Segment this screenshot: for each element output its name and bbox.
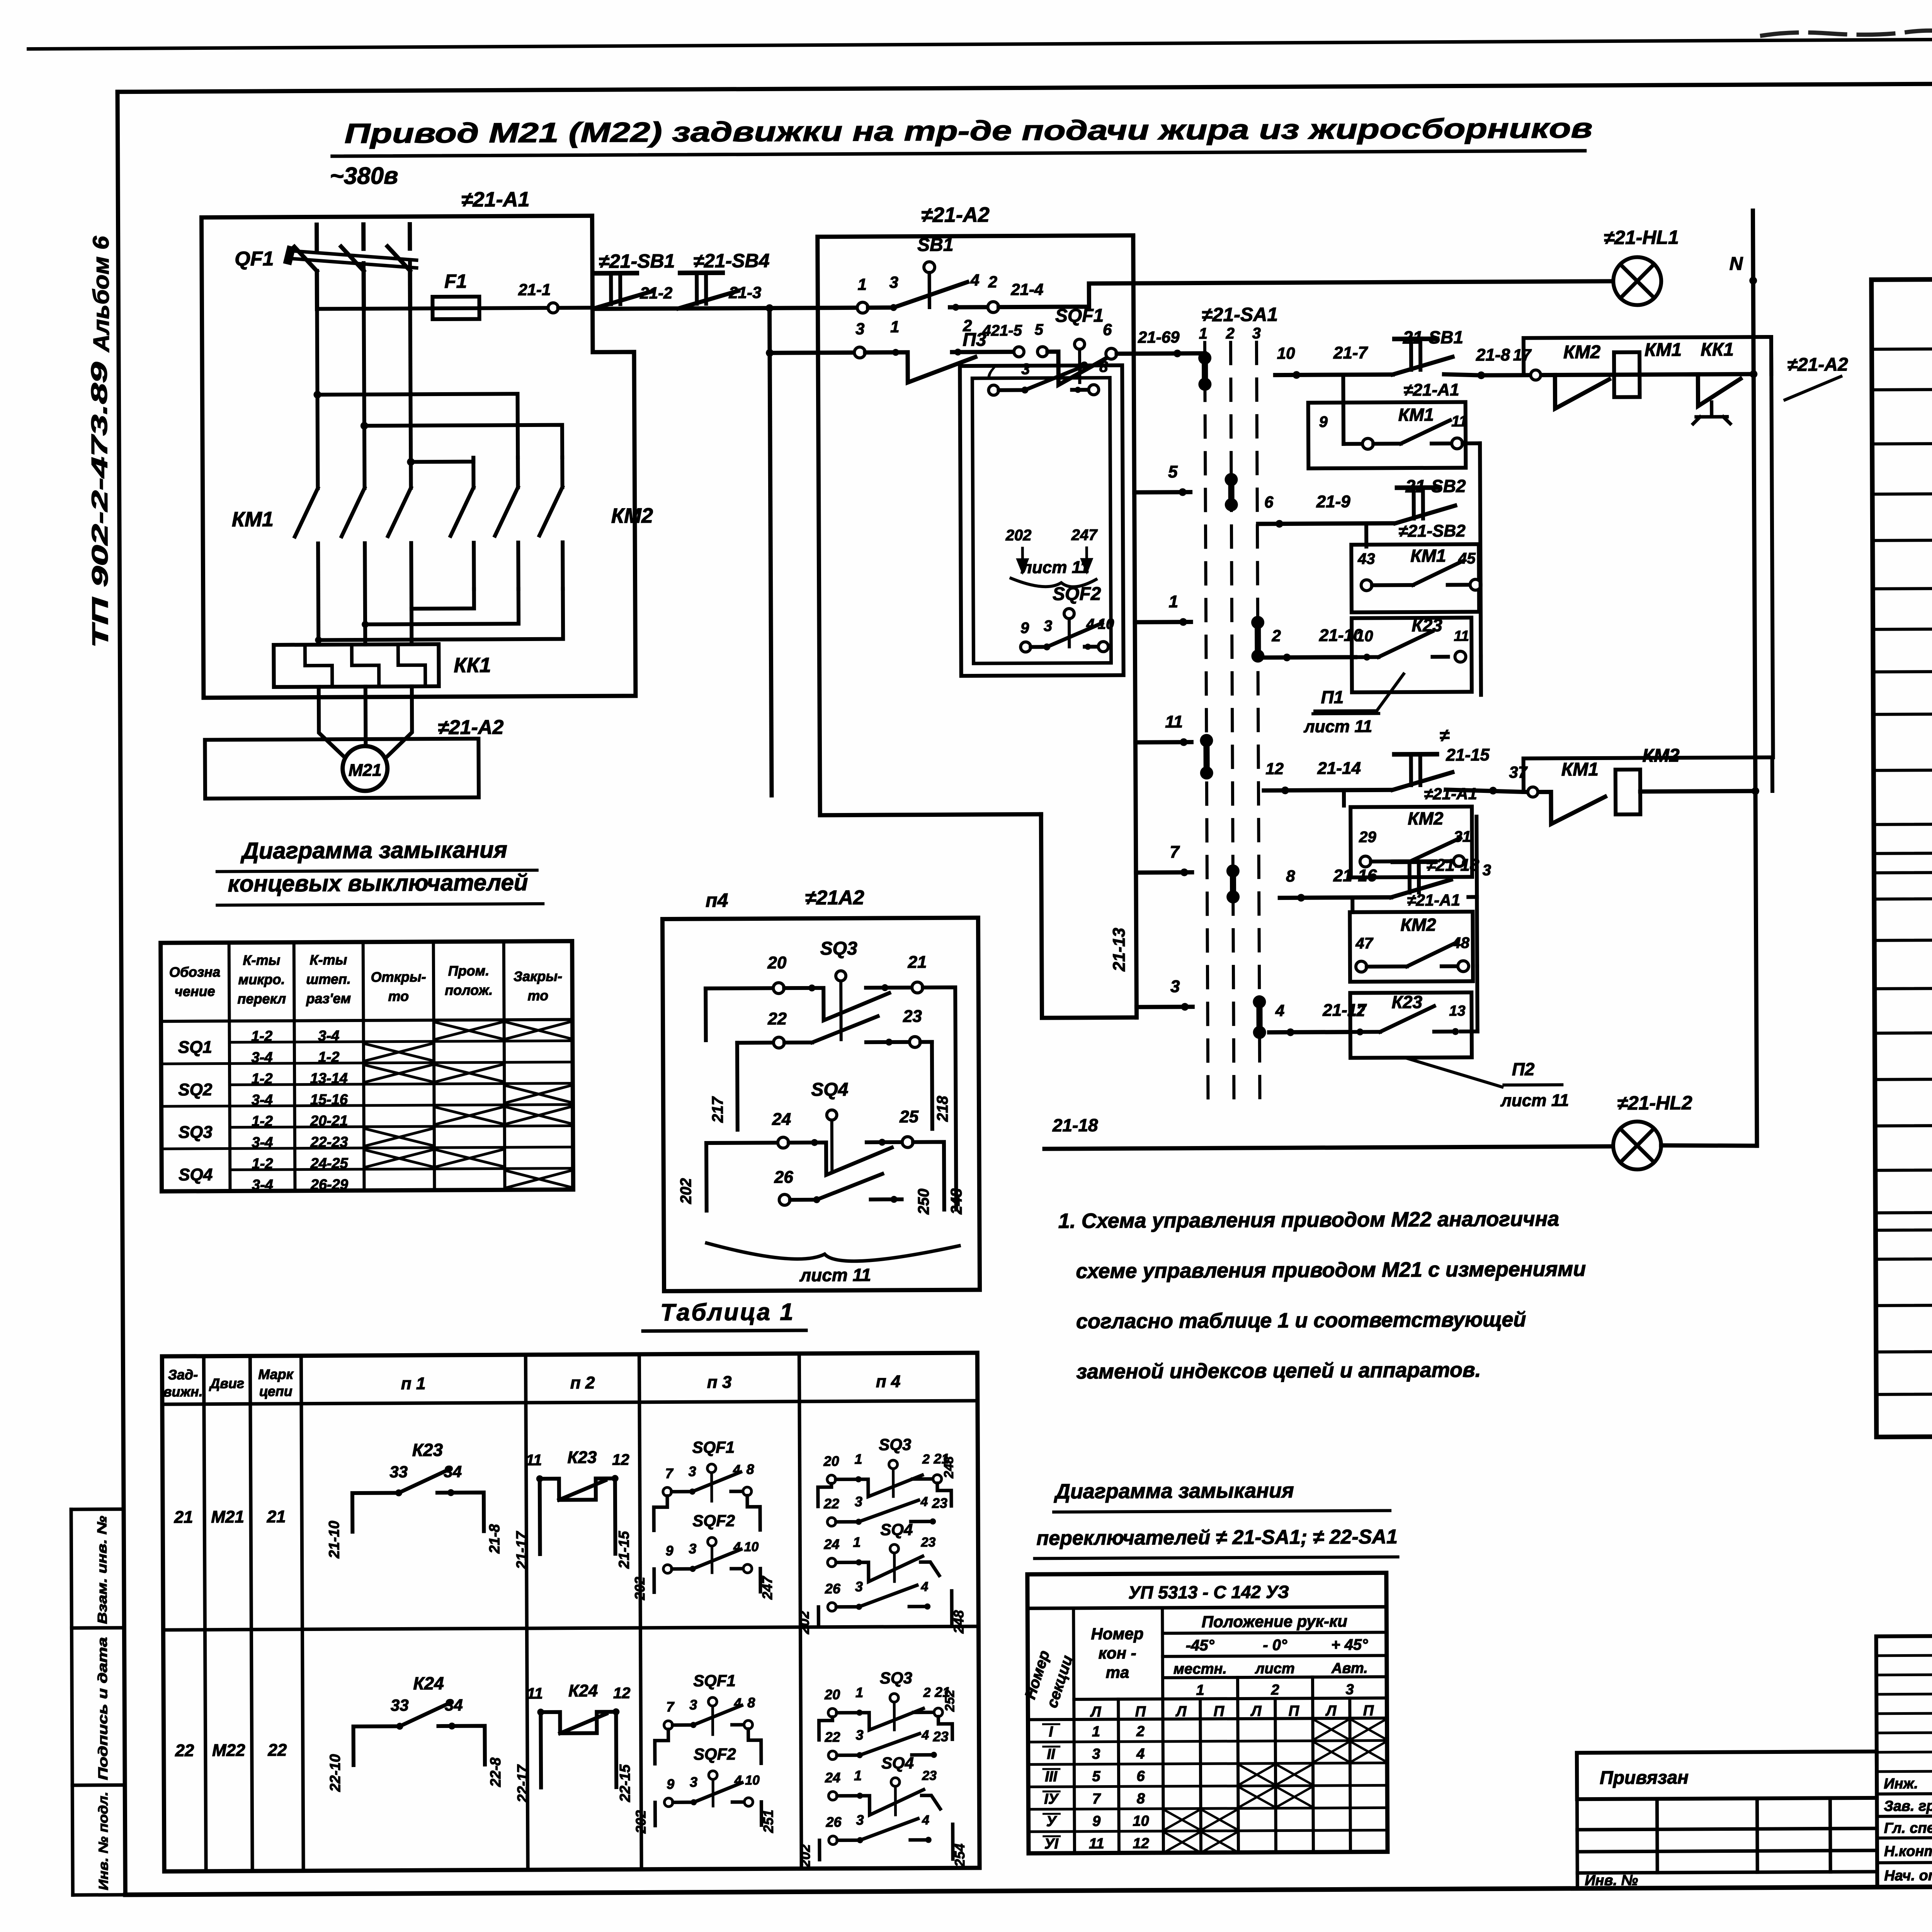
UP X mark r2 c5 xyxy=(1240,1765,1274,1784)
P3 arrow 202 xyxy=(1018,548,1027,571)
svg-text:≠: ≠ xyxy=(1440,725,1450,745)
svg-text:2: 2 xyxy=(1270,1682,1279,1698)
wire KM2 coil to rail xyxy=(1640,791,1755,791)
KM2 47-48 arm xyxy=(1407,942,1457,967)
svg-text:218: 218 xyxy=(934,1095,951,1122)
terminal 26 xyxy=(779,1194,790,1205)
tie wire C to KM2 left xyxy=(411,458,473,462)
KM1 9-11 contact arm xyxy=(1401,420,1450,444)
svg-text:23: 23 xyxy=(922,1768,937,1783)
wire row 21-10 xyxy=(1265,657,1355,658)
parts table row line xyxy=(1874,895,1932,899)
svg-text:7: 7 xyxy=(665,1465,674,1481)
terminal 47 xyxy=(1356,961,1367,972)
left rail P4 upper xyxy=(704,988,708,1040)
phase line 3 xyxy=(410,263,411,488)
KM1 pole arm 3 xyxy=(388,488,412,536)
svg-text:3: 3 xyxy=(889,273,898,291)
stub 11 xyxy=(1135,740,1191,745)
svg-text:6: 6 xyxy=(1264,493,1274,511)
svg-text:3: 3 xyxy=(1170,977,1180,996)
svg-text:9: 9 xyxy=(665,1543,673,1558)
svg-text:У: У xyxy=(1046,1813,1058,1830)
motor M21 xyxy=(342,746,388,791)
svg-text:5: 5 xyxy=(1035,321,1044,338)
relay coil KM1 xyxy=(1614,352,1640,397)
connector outputs a xyxy=(1480,443,1481,585)
UP col line 2 xyxy=(1118,1699,1119,1853)
svg-text:КМ1: КМ1 xyxy=(232,508,274,531)
svg-text:SQ2: SQ2 xyxy=(178,1080,213,1099)
terminal 43 xyxy=(1361,580,1372,591)
tall grid row xyxy=(1876,1713,1932,1714)
terminal 31 xyxy=(1454,855,1464,866)
thermal relay KK1 box xyxy=(274,644,439,687)
parts table row line xyxy=(1876,1302,1932,1305)
small grid row xyxy=(1577,1798,1877,1799)
P3 arrow 247 xyxy=(1082,548,1091,571)
svg-text:КМ1: КМ1 xyxy=(1398,405,1434,425)
small grid left xyxy=(1577,1799,1577,1888)
svg-text:≠21-А1: ≠21-А1 xyxy=(1403,381,1459,400)
block A2 control outline xyxy=(818,235,1136,815)
svg-text:Л: Л xyxy=(1325,1703,1337,1719)
wire row1 into A2 xyxy=(769,306,857,310)
svg-text:248: 248 xyxy=(941,1456,956,1479)
svg-text:SQ3: SQ3 xyxy=(879,1435,911,1454)
svg-text:9: 9 xyxy=(1319,413,1328,430)
svg-text:10: 10 xyxy=(1277,344,1295,362)
svg-text:6: 6 xyxy=(1103,320,1112,338)
svg-text:23: 23 xyxy=(933,1728,949,1744)
parts table row line xyxy=(1876,1391,1932,1394)
svg-text:≠21-А2: ≠21-А2 xyxy=(1787,354,1849,375)
UP header bottom xyxy=(1028,1718,1387,1719)
wire 21-4 step up to lamp xyxy=(998,281,1614,307)
parts table row line xyxy=(1874,937,1932,940)
X mark r0 c5 xyxy=(507,1022,570,1039)
svg-text:9: 9 xyxy=(1020,619,1029,636)
svg-text:ТП 902-2-473.89: ТП 902-2-473.89 xyxy=(87,362,113,648)
svg-text:12: 12 xyxy=(613,1685,631,1702)
UP X mark r1 c7 xyxy=(1315,1742,1349,1762)
svg-text:11: 11 xyxy=(527,1685,543,1702)
parts table row line xyxy=(1872,490,1932,494)
parts table row line xyxy=(1876,1226,1932,1230)
KK1 contact row3 xyxy=(1686,374,1740,406)
UP row line xyxy=(1028,1740,1387,1742)
svg-text:то: то xyxy=(527,988,548,1003)
stamp box line 3 xyxy=(72,1783,125,1787)
svg-text:23: 23 xyxy=(932,1495,947,1511)
svg-text:п 1: п 1 xyxy=(401,1374,426,1393)
X mark r2 c4 xyxy=(436,1065,502,1082)
junction phase B tie xyxy=(361,422,368,430)
SQ table frame xyxy=(161,941,573,1192)
svg-text:21-15: 21-15 xyxy=(616,1531,632,1569)
X mark r4 c5 xyxy=(507,1107,571,1124)
relay box KM1 43-45 (#21-SB2) xyxy=(1351,544,1479,612)
svg-text:КМ2: КМ2 xyxy=(1642,745,1680,766)
svg-text:≠21-А2: ≠21-А2 xyxy=(438,716,503,739)
svg-text:202: 202 xyxy=(1005,527,1032,544)
KK1 heater element xyxy=(305,645,332,687)
stub 5 xyxy=(1134,490,1190,495)
svg-text:I: I xyxy=(1049,1724,1053,1740)
svg-text:15-16: 15-16 xyxy=(310,1092,348,1108)
svg-text:переключателей ≠ 21-SA1; ≠ 22: переключателей ≠ 21-SA1; ≠ 22-SA1 xyxy=(1036,1526,1398,1549)
pin4 dot xyxy=(952,304,959,311)
QF1 trip bar upper xyxy=(289,250,417,260)
svg-text:2: 2 xyxy=(923,1685,931,1700)
scan smudge top right xyxy=(1762,31,1932,36)
SQ table column line xyxy=(229,942,230,1191)
svg-text:SQ3: SQ3 xyxy=(820,938,858,959)
KM1 NC contact row5 xyxy=(1539,792,1605,824)
SA1 closed mark line2 row8 xyxy=(1226,864,1240,903)
svg-text:1-2: 1-2 xyxy=(318,1049,339,1065)
tall grid row xyxy=(1876,1674,1932,1675)
wire 21-69 to SA1 xyxy=(1117,351,1205,356)
node 17 xyxy=(1531,370,1541,380)
X mark r0 c4 xyxy=(436,1022,502,1039)
UP X mark r3 c6 xyxy=(1277,1787,1311,1806)
svg-text:21-13: 21-13 xyxy=(1110,928,1129,972)
KK1 heater element xyxy=(352,645,379,687)
box privyazan xyxy=(1577,1752,1877,1799)
svg-text:21-7: 21-7 xyxy=(1333,344,1369,362)
svg-text:10: 10 xyxy=(744,1539,759,1554)
parts table row line xyxy=(1876,1255,1932,1259)
svg-text:кон -: кон - xyxy=(1099,1644,1136,1662)
X mark r5 c3 xyxy=(366,1129,432,1146)
svg-text:1-2: 1-2 xyxy=(252,1113,273,1129)
SQ3 stem xyxy=(839,981,843,1040)
svg-text:Инж.: Инж. xyxy=(1884,1776,1918,1792)
terminal 10 P3 xyxy=(1098,642,1108,652)
fuse F1 xyxy=(432,297,479,320)
QF1 pole lower 1 xyxy=(315,271,319,309)
wire row2 left xyxy=(770,350,854,355)
stamp box line 1 xyxy=(71,1507,124,1511)
svg-text:4: 4 xyxy=(1136,1746,1145,1762)
svg-text:2: 2 xyxy=(988,273,997,291)
relay box KM1 9-11 (#21-A1) xyxy=(1308,402,1466,468)
svg-text:23: 23 xyxy=(920,1535,935,1549)
tall grid row xyxy=(1877,1770,1932,1772)
svg-text:24-25: 24-25 xyxy=(310,1155,348,1172)
svg-text:≠21-18: ≠21-18 xyxy=(1426,855,1479,875)
svg-text:П: П xyxy=(1363,1703,1374,1719)
svg-text:Альбом 6: Альбом 6 xyxy=(88,236,114,353)
svg-text:КК1: КК1 xyxy=(454,653,491,677)
svg-text:-45°: -45° xyxy=(1186,1637,1215,1654)
drop to KM2 29-31 xyxy=(1342,790,1346,806)
SQ table row line xyxy=(230,1126,573,1128)
wire row 21-17 xyxy=(1269,1030,1349,1034)
svg-text:Диаграмма замыкания: Диаграмма замыкания xyxy=(1054,1479,1294,1503)
wire row 21-9 xyxy=(1258,523,1393,524)
stub 5 dot xyxy=(1179,488,1187,496)
svg-text:2: 2 xyxy=(1136,1723,1145,1740)
push button SB1 symbol xyxy=(592,273,652,309)
svg-text:1: 1 xyxy=(854,1451,862,1467)
svg-text:202: 202 xyxy=(796,1611,812,1634)
UP X mark r0 c7 xyxy=(1314,1720,1348,1739)
svg-text:П: П xyxy=(1289,1703,1299,1719)
svg-text:п 2: п 2 xyxy=(570,1373,595,1392)
svg-text:лист 11: лист 11 xyxy=(1303,717,1372,736)
svg-text:SQ4: SQ4 xyxy=(881,1754,914,1772)
svg-text:1-2: 1-2 xyxy=(252,1156,273,1172)
terminal 9 xyxy=(1362,439,1373,449)
P1 underline xyxy=(1313,712,1379,715)
connector outputs b xyxy=(1479,585,1483,656)
svg-text:К-ты: К-ты xyxy=(243,952,280,968)
tie wire A to KM2 mid xyxy=(317,394,518,458)
svg-text:3: 3 xyxy=(856,1727,864,1743)
svg-text:7: 7 xyxy=(1170,843,1180,862)
svg-text:Диаграмма замыкания: Диаграмма замыкания xyxy=(240,837,507,864)
parts table row line xyxy=(1875,1167,1932,1170)
svg-text:1: 1 xyxy=(1092,1724,1100,1740)
KK1 heater symbol xyxy=(1693,402,1730,423)
phase stub 2 xyxy=(361,224,366,249)
UP table frame xyxy=(1027,1573,1388,1853)
svg-text:лист 11: лист 11 xyxy=(799,1265,871,1285)
svg-text:250: 250 xyxy=(915,1189,932,1215)
svg-text:УП 5313 - С 142 УЗ: УП 5313 - С 142 УЗ xyxy=(1128,1582,1289,1602)
junction phase A tie xyxy=(313,391,321,398)
svg-text:4: 4 xyxy=(921,1728,929,1743)
UP col line small xyxy=(1275,1699,1276,1852)
KM1 pole arm 1 xyxy=(295,488,318,536)
terminal 24 xyxy=(778,1137,789,1148)
svg-text:3-4: 3-4 xyxy=(252,1092,273,1108)
svg-text:21-15: 21-15 xyxy=(1446,745,1490,764)
svg-text:3-4: 3-4 xyxy=(252,1134,273,1151)
t1 row1 p2 contact xyxy=(541,1712,616,1787)
svg-text:254: 254 xyxy=(952,1844,968,1867)
svg-text:Гл. спец.: Гл. спец. xyxy=(1884,1820,1932,1837)
box P4 xyxy=(662,918,980,1291)
table1 column xyxy=(799,1354,801,1869)
svg-text:вижн.: вижн. xyxy=(163,1384,203,1400)
svg-text:~380в: ~380в xyxy=(330,163,398,190)
vertical wire 21-13 xyxy=(1133,236,1137,1017)
svg-text:Л: Л xyxy=(1250,1703,1262,1719)
P4 brace xyxy=(707,1242,959,1262)
stub 11 dot xyxy=(1180,738,1187,746)
svg-text:SQ3: SQ3 xyxy=(179,1123,213,1142)
svg-text:23: 23 xyxy=(903,1007,922,1026)
UP col line small xyxy=(1350,1698,1350,1852)
box P1 K23 xyxy=(1352,617,1472,692)
box P2 K23 xyxy=(1350,992,1472,1058)
phase stub 3 xyxy=(408,224,412,248)
parts table row line xyxy=(1874,985,1932,988)
relay box KM2 47-48 (#21-A1) xyxy=(1350,912,1473,981)
wire SB1 to 21-8 xyxy=(1444,374,1481,375)
QF1 pole arm 2 xyxy=(341,247,364,271)
svg-text:22-10: 22-10 xyxy=(327,1754,344,1792)
UP col line small xyxy=(1200,1699,1201,1852)
svg-text:М21: М21 xyxy=(211,1507,244,1526)
UP row line xyxy=(1028,1785,1387,1787)
svg-text:21-14: 21-14 xyxy=(1317,759,1361,778)
svg-text:21: 21 xyxy=(174,1508,193,1527)
KM2 pole upper 3 xyxy=(560,457,564,487)
svg-text:≠21-А1: ≠21-А1 xyxy=(1407,891,1460,910)
small grid col xyxy=(1755,1798,1759,1872)
UP title underline row xyxy=(1027,1607,1386,1608)
svg-text:21-18: 21-18 xyxy=(1052,1115,1098,1136)
sig row line xyxy=(1877,1861,1932,1862)
terminal 421-5 xyxy=(1014,347,1024,357)
svg-text:SQ4: SQ4 xyxy=(811,1079,848,1100)
svg-text:Привод М21 (М22) задвижки: Привод М21 (М22) задвижки на тр-де подач… xyxy=(344,113,1592,149)
svg-text:6: 6 xyxy=(1136,1768,1145,1784)
small grid row xyxy=(1577,1872,1877,1873)
wire row3 relay branch xyxy=(1481,374,1753,375)
table1 column xyxy=(250,1356,252,1871)
svg-text:31: 31 xyxy=(1454,828,1471,845)
SQ table row line xyxy=(162,1147,573,1149)
svg-text:22-15: 22-15 xyxy=(617,1764,633,1802)
svg-text:421-5: 421-5 xyxy=(982,322,1022,339)
svg-text:1: 1 xyxy=(857,275,867,293)
svg-text:Таблица 1: Таблица 1 xyxy=(660,1299,795,1326)
drop to 47 xyxy=(1350,898,1354,912)
terminal 8 P3 xyxy=(1088,385,1099,395)
sheet top line xyxy=(29,36,1932,49)
svg-text:3: 3 xyxy=(1092,1746,1100,1762)
pin1 dot row2 xyxy=(892,349,899,356)
svg-text:К24: К24 xyxy=(568,1681,598,1700)
X mark r4 c4 xyxy=(437,1107,502,1124)
parts table row line xyxy=(1872,537,1932,540)
svg-text:К23: К23 xyxy=(1392,992,1423,1012)
stub 1 xyxy=(1135,620,1191,624)
svg-text:Привязан: Привязан xyxy=(1600,1767,1689,1788)
svg-text:П: П xyxy=(1135,1704,1146,1720)
svg-text:та: та xyxy=(1105,1663,1129,1681)
underline diag perekl 1 xyxy=(1054,1510,1390,1512)
UP col line small xyxy=(1313,1698,1313,1852)
SQF1 plunger xyxy=(1075,339,1085,349)
wire 4-2 xyxy=(950,305,988,309)
svg-text:11: 11 xyxy=(1089,1836,1104,1852)
svg-text:45: 45 xyxy=(1458,550,1476,567)
svg-text:9: 9 xyxy=(667,1776,674,1792)
tall grid row xyxy=(1877,1732,1932,1733)
svg-text:3: 3 xyxy=(689,1463,696,1479)
svg-text:10: 10 xyxy=(745,1773,760,1787)
svg-text:33: 33 xyxy=(391,1696,409,1714)
svg-text:то: то xyxy=(388,988,409,1004)
KM2 pole arm 1 xyxy=(451,488,474,536)
terminal 5 xyxy=(1037,347,1048,357)
KM1 43-45 arm xyxy=(1413,561,1463,585)
svg-text:схеме управления приводом М: схеме управления приводом М21 с измерени… xyxy=(1076,1257,1586,1283)
svg-text:П2: П2 xyxy=(1512,1059,1535,1079)
terminal 7 P3 xyxy=(988,385,998,395)
table1 frame xyxy=(162,1353,980,1871)
svg-text:≠21-SB1: ≠21-SB1 xyxy=(599,250,675,272)
K23 contact arm P2 xyxy=(1380,1006,1434,1032)
svg-text:21-9: 21-9 xyxy=(1316,492,1351,511)
svg-text:К23: К23 xyxy=(567,1448,597,1467)
leader #21-A2 xyxy=(1785,376,1841,400)
svg-text:п4: п4 xyxy=(706,889,728,911)
svg-text:КМ2: КМ2 xyxy=(1400,915,1436,935)
svg-text:9: 9 xyxy=(1092,1813,1100,1830)
svg-text:КМ2: КМ2 xyxy=(1408,808,1444,828)
svg-text:11: 11 xyxy=(1454,628,1469,644)
svg-text:22-23: 22-23 xyxy=(310,1134,348,1150)
svg-text:5: 5 xyxy=(1168,463,1178,481)
svg-text:Закры-: Закры- xyxy=(514,968,562,985)
UP row line xyxy=(1028,1763,1387,1764)
svg-text:1. Схема управления приводо: 1. Схема управления приводом М22 аналоги… xyxy=(1058,1207,1560,1233)
svg-text:Зав. гр.: Зав. гр. xyxy=(1884,1798,1932,1815)
wire 21-1 to SB1 xyxy=(558,306,592,310)
svg-text:Обозна: Обозна xyxy=(169,964,221,980)
push button 21-SB1 row5 xyxy=(1393,754,1452,790)
terminal 1 xyxy=(857,302,868,313)
junction row3/N rail xyxy=(1750,370,1757,378)
connector outputs c xyxy=(1477,861,1477,966)
svg-text:УІ: УІ xyxy=(1044,1836,1059,1852)
terminal 11 P1 xyxy=(1455,651,1466,662)
svg-text:QF1: QF1 xyxy=(235,248,274,270)
svg-text:II: II xyxy=(1047,1746,1056,1762)
box P3 outer xyxy=(960,365,1123,676)
QF1 pole arm 1 xyxy=(294,247,317,271)
UP X mark r2 c6 xyxy=(1277,1765,1311,1784)
svg-text:21-8: 21-8 xyxy=(486,1524,503,1554)
box P3 inner xyxy=(972,378,1111,663)
pin3 dot xyxy=(890,304,897,311)
svg-text:22-8: 22-8 xyxy=(488,1757,504,1787)
stamp box bottom xyxy=(73,1893,125,1897)
terminal 23 xyxy=(910,1037,920,1048)
svg-text:SQF2: SQF2 xyxy=(694,1745,736,1764)
svg-text:≠21-А1: ≠21-А1 xyxy=(1424,784,1477,803)
KM2 pole upper 1 xyxy=(471,458,475,488)
vertical bus 21-3 xyxy=(769,308,772,795)
parts table row line xyxy=(1872,440,1932,444)
UP col line 3 xyxy=(1162,1608,1163,1853)
svg-text:25: 25 xyxy=(899,1107,919,1126)
UP row line xyxy=(1029,1830,1388,1832)
parts table row line xyxy=(1874,869,1932,872)
svg-text:21: 21 xyxy=(907,953,927,972)
junction phase C tie xyxy=(407,458,415,466)
sig row line xyxy=(1877,1793,1932,1794)
svg-text:247: 247 xyxy=(1071,527,1098,544)
svg-text:2: 2 xyxy=(1271,627,1281,645)
svg-text:26: 26 xyxy=(825,1581,841,1597)
P3 upper contact arm xyxy=(1025,366,1083,390)
svg-text:248: 248 xyxy=(948,1188,965,1215)
svg-text:концевых выключателей: концевых выключателей xyxy=(228,869,528,896)
terminal 3 row2 xyxy=(854,347,865,358)
stub 7 dot xyxy=(1180,869,1188,876)
svg-text:Нач. отд.: Нач. отд. xyxy=(1884,1867,1932,1884)
svg-text:Л: Л xyxy=(1175,1704,1187,1720)
svg-text:1: 1 xyxy=(855,1684,863,1700)
